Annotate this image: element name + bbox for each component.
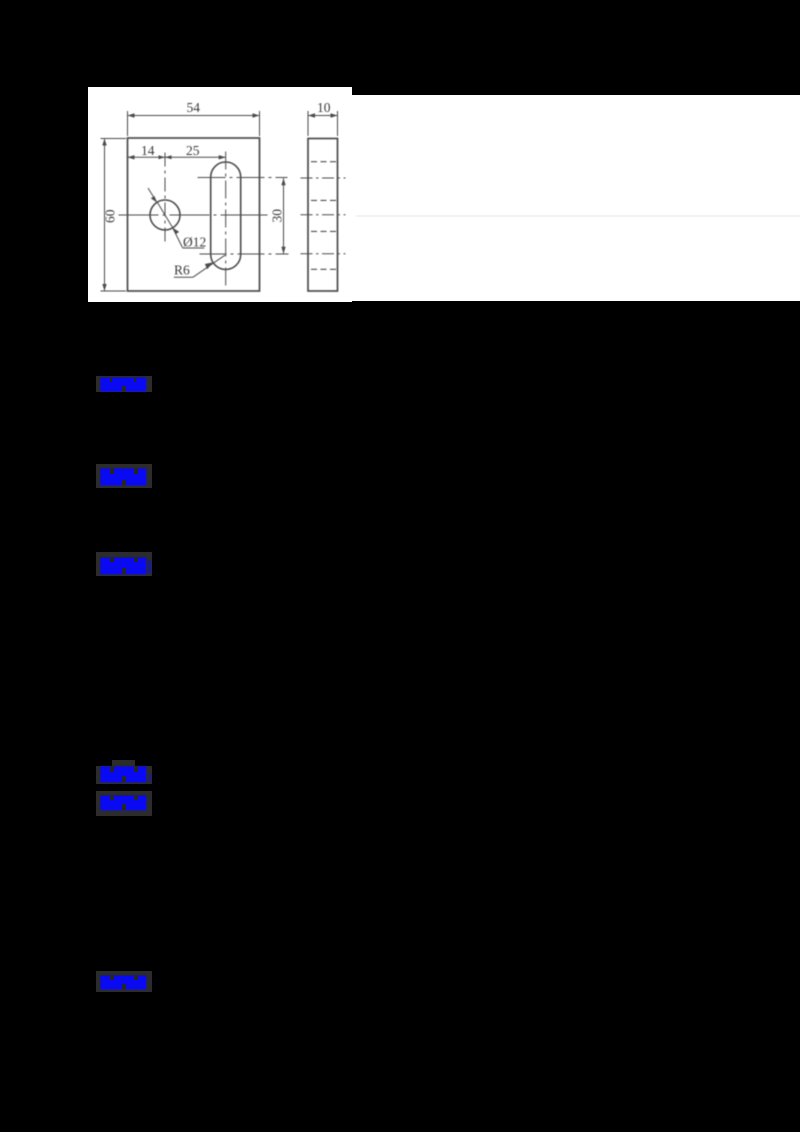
side view hidden line slot top: [311, 161, 336, 163]
dim 54 extension lines: [128, 111, 260, 136]
link label 2 box: [96, 464, 152, 488]
link label 6 blue text blob: [100, 975, 146, 989]
link label 2 blue text blob: [100, 468, 146, 485]
leader Ø12 arrowheads: [151, 196, 179, 234]
leader Ø12 underline: [183, 247, 205, 249]
side view centerline bottom: [301, 253, 346, 255]
slot vertical centerline: [225, 152, 227, 286]
svg-text:10: 10: [317, 100, 331, 115]
side view centerline top: [301, 177, 346, 179]
dim 25 arrows: [165, 155, 226, 159]
svg-text:54: 54: [187, 100, 201, 115]
dim 54 line: [128, 115, 260, 117]
svg-text:60: 60: [103, 209, 118, 223]
dim 54 arrows: [128, 113, 260, 117]
dim 14 line: [128, 156, 166, 158]
side view hidden line slot bottom: [311, 268, 336, 270]
svg-text:30: 30: [270, 209, 285, 223]
link label 4 box: [96, 766, 152, 784]
link label 5 box: [96, 791, 152, 816]
leader Ø12 diagonal: [148, 188, 183, 248]
link label 1 blue text blob: [100, 377, 146, 391]
leader R6 underline: [174, 276, 193, 278]
link label 3 blue text blob: [100, 557, 146, 574]
dim 60 line: [104, 139, 106, 292]
leader R6 arrowhead: [205, 262, 213, 269]
dim 60 extension lines: [101, 139, 127, 292]
dim 10 line and arrows: [308, 115, 338, 117]
dim 60 arrows: [102, 139, 106, 292]
link label 3 faint colon: [147, 560, 151, 573]
svg-text:14: 14: [141, 143, 155, 158]
hole Ø12: [150, 200, 180, 230]
dim 14 arrows: [128, 155, 166, 159]
dim 30 arrows: [281, 178, 285, 254]
faint centerline continuation across right band: [356, 215, 800, 217]
dim 30 line: [283, 178, 285, 254]
hole vertical centerline: [164, 153, 166, 242]
svg-text:25: 25: [186, 143, 200, 158]
leader R6 diagonal: [193, 255, 225, 277]
dim 25 line: [165, 156, 226, 158]
slot bottom arc centerline / 30-dim extension: [200, 253, 289, 255]
slot R6 outline: [211, 162, 241, 270]
scanned drawing image: left white panel: [88, 87, 352, 302]
link label 4 top tab: [112, 760, 135, 768]
side view hidden line hole top: [311, 199, 336, 201]
link label 3 box: [96, 552, 152, 576]
link label 4 blue text blob: [100, 766, 146, 782]
link label 1 box: [96, 376, 152, 392]
link label 5 blue text blob: [100, 795, 146, 810]
side view hidden line hole bottom: [311, 230, 336, 232]
slot top arc centerline / 30-dim extension: [198, 177, 288, 179]
link label 6 box: [96, 971, 152, 992]
front view plate outline: [128, 138, 260, 291]
svg-text:Ø12: Ø12: [183, 235, 206, 250]
dim 10 extension lines: [308, 111, 338, 136]
link label 4 faint dot: [148, 774, 151, 781]
hole horizontal centerline: [119, 214, 268, 216]
side view outline: [308, 139, 338, 292]
scanned drawing image: right white band: [352, 95, 800, 301]
side view centerline middle: [301, 214, 346, 216]
technical drawing SVG: [88, 87, 352, 303]
svg-text:R6: R6: [174, 263, 190, 278]
